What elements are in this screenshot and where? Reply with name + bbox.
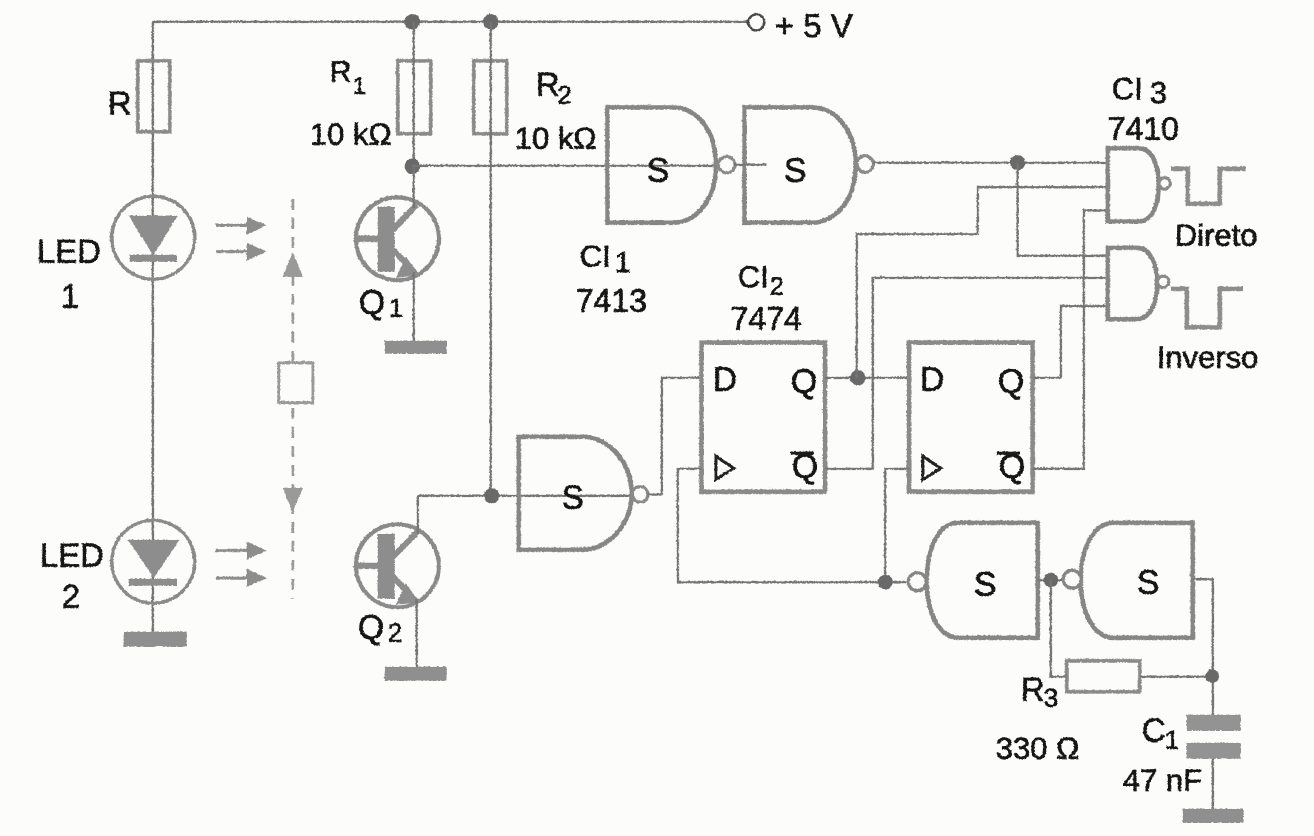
svg-text:7413: 7413 [575,282,646,318]
wire FF1 clock to oscillator line [677,468,908,582]
wire Q2 collector to gate 3 input [417,494,632,496]
svg-text:CI: CI [579,238,610,273]
light arrows from LED1 [215,216,266,260]
node Q1 collector junction [404,158,420,174]
node junction R2 gate3 input [483,487,498,502]
svg-text:1: 1 [60,277,78,314]
svg-text:R: R [107,84,131,121]
resistor R [107,60,169,131]
svg-text:47 nF: 47 nF [1122,762,1201,797]
nand gate CI1-c [518,436,647,549]
wire top +5V rail [152,20,747,22]
svg-text:1: 1 [388,292,402,322]
svg-text:3: 3 [1149,75,1166,110]
svg-text:S: S [973,565,996,603]
svg-text:2: 2 [769,272,783,300]
LED LED1 [36,196,194,315]
nand gate CI1-e oscillator [1063,522,1193,637]
node junction CI1 out tap [1009,154,1024,169]
wire R1 branch [412,21,414,166]
resistor R1 [309,55,430,151]
svg-text:D: D [919,360,944,398]
capacitor C1 [1122,711,1240,797]
resistor R2 [473,60,596,155]
node junction R3 C1 [1205,669,1219,683]
wire left vertical branch LED1 LED2 [151,21,153,631]
nand gate CI3-A [1107,148,1170,221]
svg-text:R: R [1020,670,1044,707]
wire FF1 Q to FF2 D [824,376,908,378]
flip-flop CI2 FF1 [701,342,825,491]
svg-text:Q: Q [790,362,816,400]
wire R3 to C1 node [1139,675,1212,677]
wire R2 branch [489,21,491,495]
ground below Q1 [384,340,446,353]
ground below C1 [1182,808,1243,822]
svg-text:R: R [535,65,559,102]
wire FF1 Qbar to gate CI3-B input [824,277,1107,468]
nand gate CI1-d oscillator [908,522,1038,637]
node junction clock line [877,574,892,589]
waveform Direto [1170,168,1257,252]
wire Q1 collector [412,165,414,207]
transistor Q1 [355,197,438,323]
svg-text:2: 2 [387,617,401,647]
wire node to CI1 gate 1 input [411,164,718,166]
waveform Inverso [1156,288,1258,374]
label CI2 7474 [730,259,801,337]
wire FF2 Qbar to gate CI3-A input [1032,210,1107,468]
svg-text:2: 2 [557,81,571,109]
svg-text:D: D [712,360,737,398]
wire Q1 emitter [412,271,414,340]
light path dashed line [278,198,312,598]
svg-text:S: S [561,478,583,515]
wire tap down to gate CI3-B input [1017,162,1107,255]
svg-text:S: S [1136,563,1159,601]
svg-text:C: C [1141,711,1165,748]
svg-text:Q: Q [358,283,384,321]
wire C1 to ground [1211,758,1213,808]
svg-text:CI: CI [1111,71,1142,106]
wire FF2 Q to gate CI3-B input [1032,305,1107,377]
label CI3 7410 [1107,71,1178,146]
nand gate CI1-a [607,107,735,222]
svg-text:LED: LED [36,232,100,269]
svg-text:Q: Q [997,362,1023,400]
wire between oscillator gates [1037,578,1063,580]
svg-text:R: R [329,55,351,88]
svg-text:LED: LED [39,536,103,573]
light arrows from LED2 [215,541,266,586]
svg-text:Q: Q [357,608,383,646]
svg-text:+ 5 V: + 5 V [774,7,852,44]
svg-text:330 Ω: 330 Ω [995,730,1079,765]
ground below LED2 [123,631,186,646]
terminal +5V [748,7,852,44]
wire CI1 output to CI3 [872,161,1107,163]
LED LED2 [39,520,194,615]
label CI1 7413 [575,238,646,318]
wire gate3 output to FF1 D [647,377,701,494]
svg-text:Direto: Direto [1174,217,1257,252]
svg-text:1: 1 [1164,724,1178,754]
wire Q2 emitter [415,598,417,666]
nand gate CI3-B [1107,247,1168,318]
svg-text:2: 2 [61,577,79,614]
node junction R3 tap [1043,572,1057,586]
transistor Q2 [355,524,438,648]
node junction dot R1 rail [404,13,420,29]
wire Q2 collector [416,495,418,534]
svg-text:1: 1 [352,72,365,99]
svg-text:S: S [646,151,669,189]
node junction FF1 Q [849,369,864,384]
wire gate5 input from C1 node [1192,579,1212,715]
svg-text:7410: 7410 [1107,110,1178,146]
flip-flop CI2 FF2 [908,342,1032,491]
svg-text:Inverso: Inverso [1156,339,1258,374]
resistor R3 [995,660,1139,765]
wire FF1 Q tap to gate CI3-A input [856,186,1107,377]
svg-text:10 kΩ: 10 kΩ [309,116,391,151]
wire R3 feedback [1050,580,1066,677]
svg-text:CI: CI [737,259,768,294]
wire FF2 clock [885,468,909,582]
nand gate CI1-b [733,107,873,222]
ground below Q2 [384,666,446,680]
node junction dot R2 rail [482,13,498,29]
svg-text:3: 3 [1043,682,1057,712]
svg-text:1: 1 [614,247,630,279]
svg-text:7474: 7474 [730,300,801,336]
svg-text:10 kΩ: 10 kΩ [514,120,596,155]
svg-text:S: S [783,151,806,189]
